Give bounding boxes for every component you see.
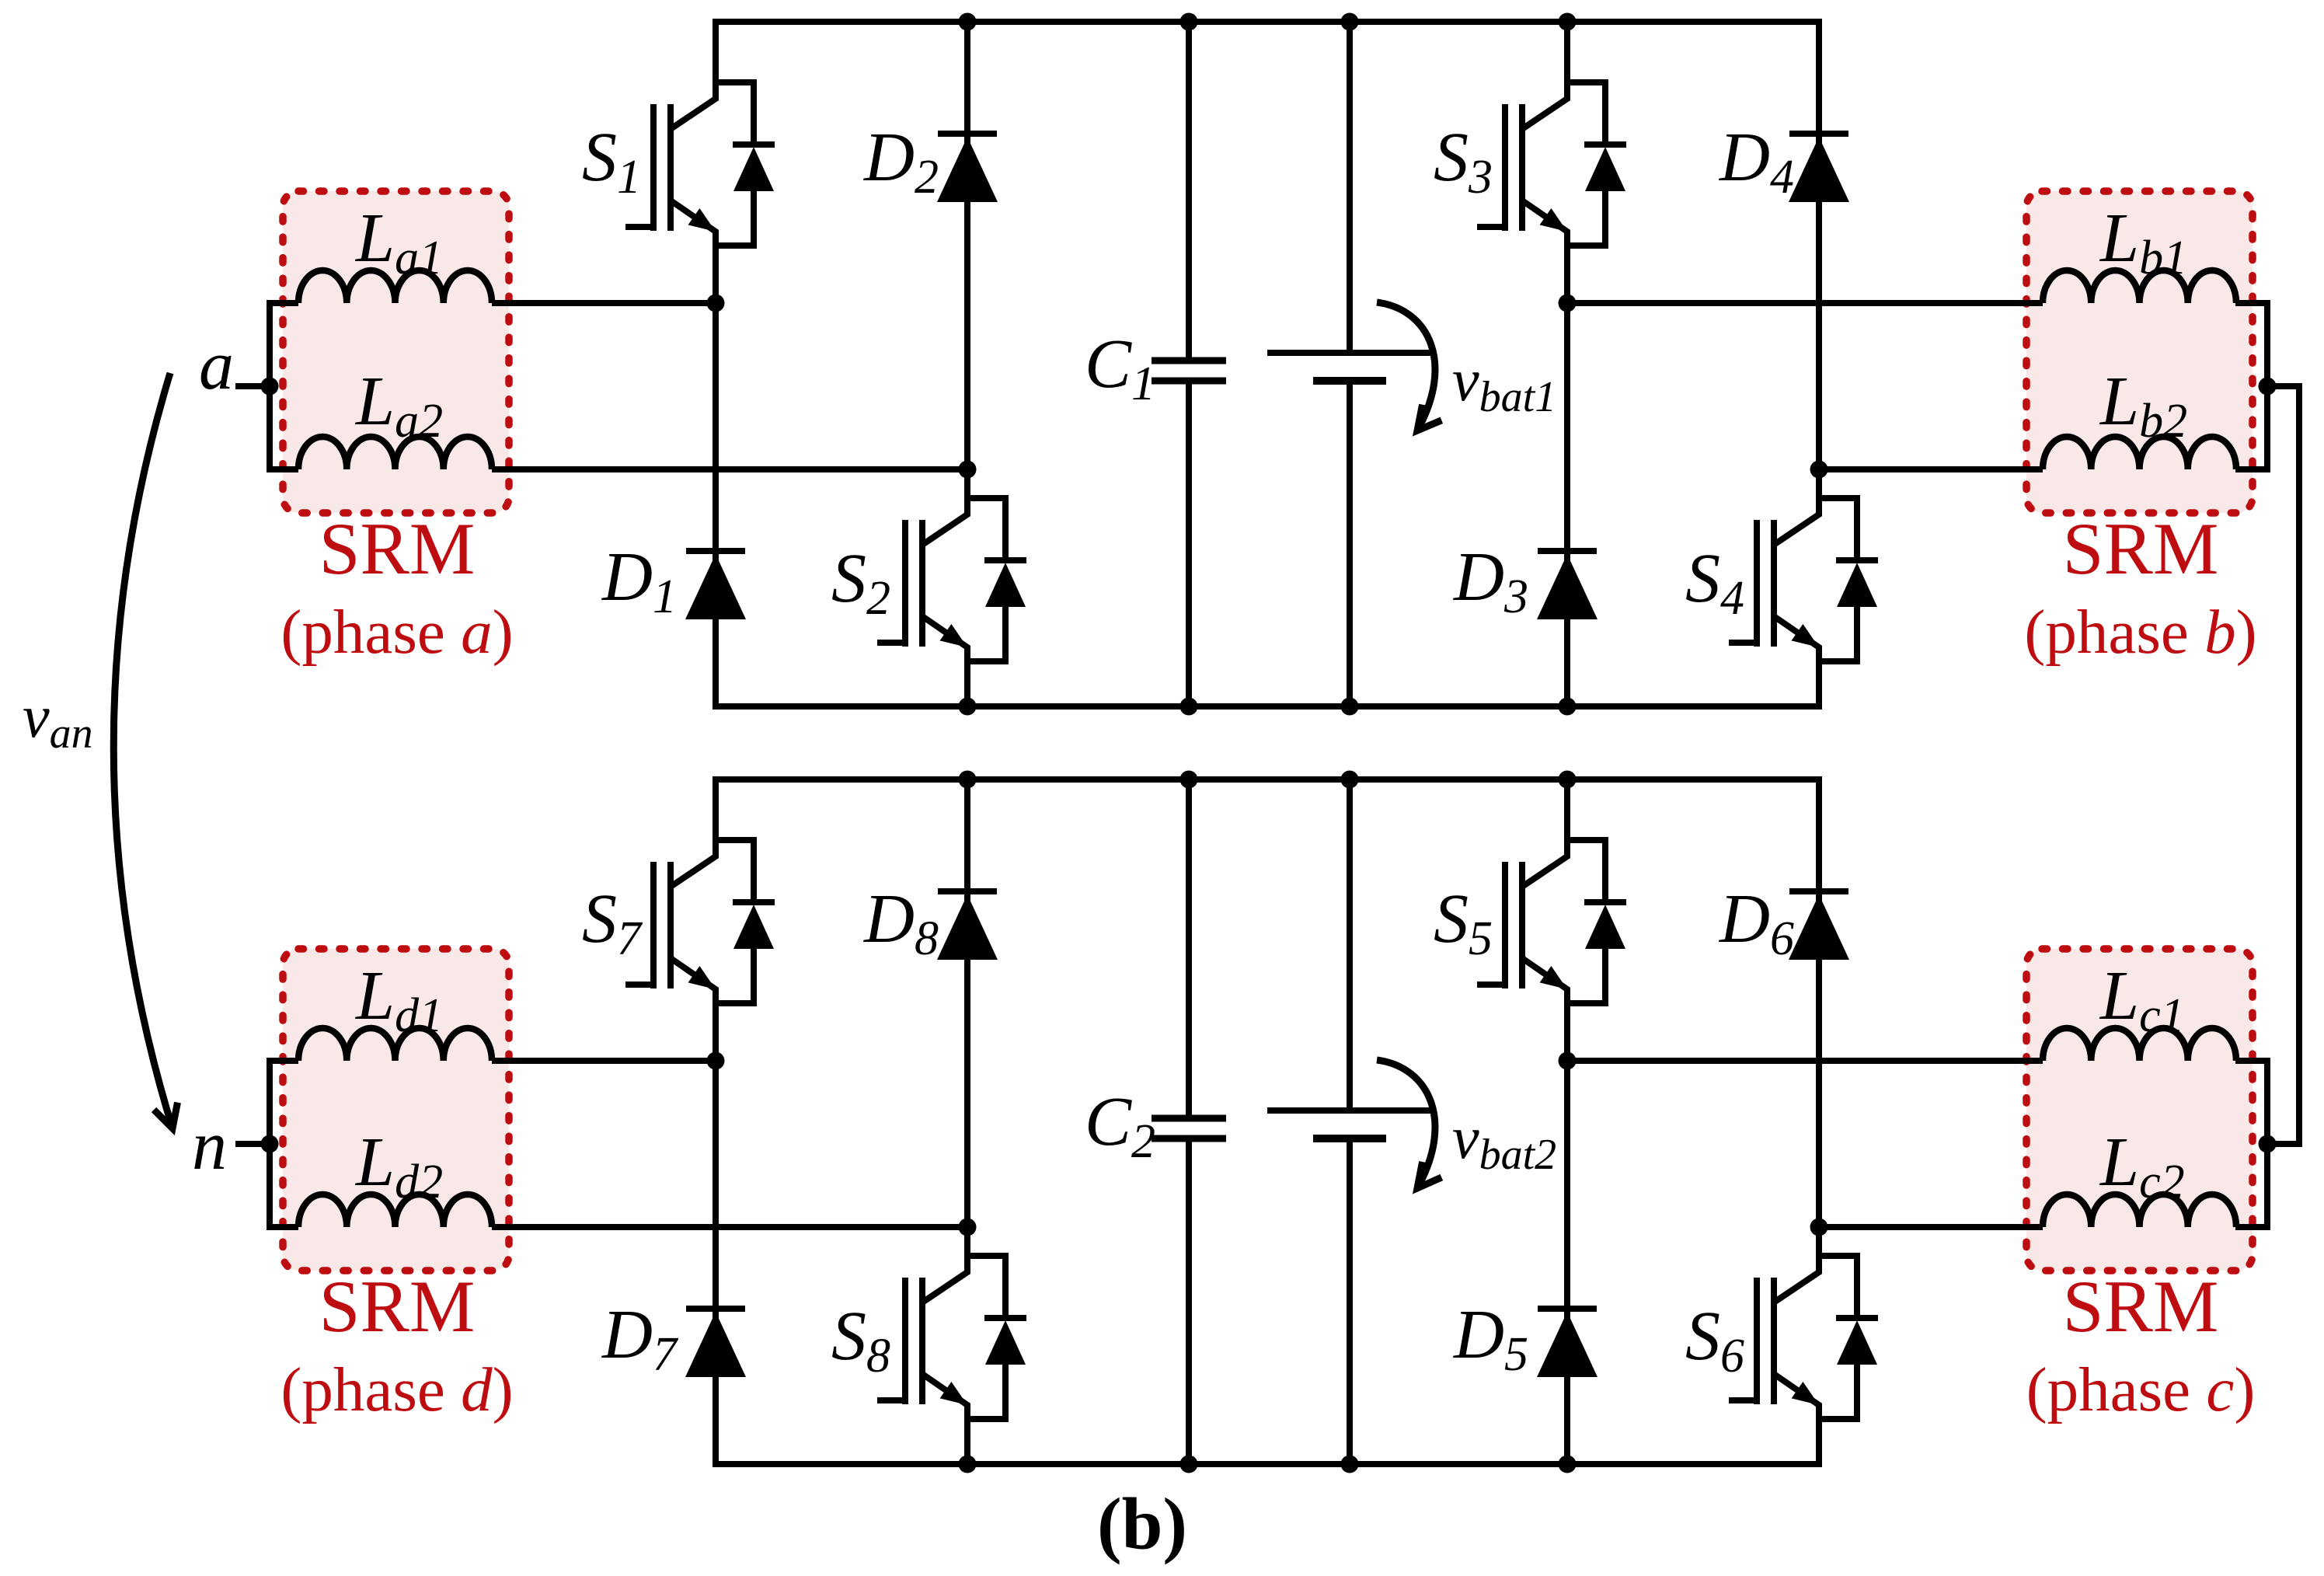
wire leg D5 (node to negative bus) — [1564, 1061, 1570, 1464]
svg-text:(b): (b) — [1097, 1483, 1187, 1565]
node negative bus / battery1 leg — [1341, 698, 1359, 716]
wire top-section positive DC bus — [713, 19, 1822, 25]
inductor Ld1 — [298, 1028, 492, 1061]
transistor S1 (IGBT, top switch) — [625, 22, 775, 303]
node D8/S8/Ld2 junction — [959, 1219, 977, 1236]
node b terminal — [2259, 378, 2277, 396]
SRM machine box phase d — [283, 949, 509, 1271]
diode D6 — [1789, 891, 1849, 960]
wire La1 to S1/D1 node — [492, 300, 716, 306]
node positive bus / battery1 leg — [1341, 13, 1359, 31]
wire Lb1 to S3/D3 node — [1567, 300, 2043, 306]
node c terminal — [2259, 1135, 2277, 1153]
node negative bus / D3 leg — [1559, 698, 1577, 716]
node D2/S2/La2 junction — [959, 461, 977, 479]
node negative bus2 / battery2 leg — [1341, 1456, 1359, 1473]
battery vbat1 — [1267, 350, 1432, 356]
transistor S4 (IGBT, bottom switch) — [1729, 469, 1878, 706]
diode D2 — [937, 134, 998, 202]
diode D8 — [937, 891, 998, 960]
wire Lc1 to S5/D5 node — [1567, 1058, 2043, 1064]
node D4/S4/Lb2 junction — [1810, 461, 1828, 479]
transistor S8 (IGBT, bottom switch) — [877, 1227, 1026, 1464]
node negative bus2 / D5 leg — [1559, 1456, 1577, 1473]
wire battery leg upper (bottom section) — [1347, 779, 1353, 1111]
svg-text:SRM: SRM — [2063, 1265, 2219, 1348]
SRM machine box phase c — [2026, 949, 2253, 1271]
node S7/D7/Ld1 junction — [707, 1052, 725, 1070]
capacitor C1 — [1152, 361, 1226, 381]
wire top-section negative DC bus — [713, 703, 1822, 710]
diode D3 — [1537, 551, 1598, 619]
wire node-b to node-c interconnect — [2267, 386, 2299, 1144]
inductor La2 — [298, 437, 492, 469]
wire bottom-section positive DC bus — [713, 776, 1822, 783]
wire leg D6 (positive bus to node) — [1816, 779, 1822, 1227]
wire phase-a left vertical — [270, 303, 298, 469]
wire bottom-section negative DC bus — [713, 1461, 1822, 1467]
transistor S6 (IGBT, bottom switch) — [1729, 1227, 1878, 1464]
node S1/D1/La1 junction — [707, 295, 725, 312]
arrow vbat2 voltage reference — [1377, 1060, 1441, 1188]
svg-text:(phase b): (phase b) — [2024, 597, 2256, 667]
transistor S3 (IGBT, top switch) — [1477, 22, 1626, 303]
svg-text:a: a — [199, 327, 234, 404]
wire leg D4 (positive bus to node) — [1816, 22, 1822, 469]
wire capacitor leg upper (bottom section) — [1186, 779, 1192, 1118]
wire capacitor leg lower (top section) — [1186, 381, 1192, 706]
node positive bus / D2 leg — [959, 13, 977, 31]
svg-text:(phase c): (phase c) — [2026, 1355, 2256, 1424]
inductor Lb1 — [2043, 270, 2236, 303]
wire Lb2 to D4/S4 node — [1819, 466, 2043, 472]
node negative bus2 / C2 leg — [1180, 1456, 1198, 1473]
node positive bus2 / battery2 leg — [1341, 771, 1359, 789]
svg-text:SRM: SRM — [2063, 507, 2219, 590]
wire leg D2 (positive bus to node) — [964, 22, 970, 469]
wire leg D8 (positive bus to node) — [964, 779, 970, 1227]
inductor Ld2 — [298, 1194, 492, 1227]
node positive bus2 / D8 leg — [959, 771, 977, 789]
node positive bus / S3 leg — [1559, 13, 1577, 31]
wire leg D7 (node to negative bus) — [713, 1061, 719, 1464]
svg-text:(phase d): (phase d) — [280, 1355, 513, 1424]
capacitor C2 — [1152, 1118, 1226, 1138]
transistor S7 (IGBT, top switch) — [625, 779, 775, 1061]
wire Lc2 to D6/S6 node — [1819, 1224, 2043, 1230]
svg-text:n: n — [192, 1107, 227, 1184]
inductor Lb2 — [2043, 437, 2236, 469]
wire phase-c right vertical — [2235, 1061, 2267, 1227]
node D6/S6/Lc2 junction — [1810, 1219, 1828, 1236]
diode D1 — [685, 551, 746, 619]
diode D5 — [1537, 1309, 1598, 1377]
wire La2 to D2/S2 node — [492, 466, 967, 472]
node a terminal — [261, 378, 279, 396]
node positive bus2 / C2 leg — [1180, 771, 1198, 789]
node S5/D5/Lc1 junction — [1559, 1052, 1577, 1070]
node negative bus / C1 leg — [1180, 698, 1198, 716]
SRM machine box phase b — [2026, 191, 2253, 513]
node negative bus / S2 leg — [959, 698, 977, 716]
arrow vbat1 voltage reference — [1377, 302, 1441, 431]
node S3/D3/Lb1 junction — [1559, 295, 1577, 312]
inductor Lc2 — [2043, 1194, 2236, 1227]
transistor S5 (IGBT, top switch) — [1477, 779, 1626, 1061]
wire battery leg upper (top section) — [1347, 22, 1353, 353]
SRM machine box phase a — [283, 191, 509, 513]
wire capacitor leg upper (top section) — [1186, 22, 1192, 361]
node n terminal — [261, 1135, 279, 1153]
wire battery leg lower (top section) — [1347, 381, 1353, 706]
wire leg D3 (node to negative bus) — [1564, 303, 1570, 706]
wire battery leg lower (bottom section) — [1347, 1138, 1353, 1464]
inductor Lc1 — [2043, 1028, 2236, 1061]
wire node-a stub — [235, 383, 270, 389]
battery vbat2 — [1267, 1107, 1432, 1114]
arrow van voltage reference from a to n — [113, 373, 177, 1128]
node positive bus / C1 leg — [1180, 13, 1198, 31]
svg-text:SRM: SRM — [319, 1265, 476, 1348]
node positive bus2 / S5 leg — [1559, 771, 1577, 789]
node negative bus2 / S8 leg — [959, 1456, 977, 1473]
diode D4 — [1789, 134, 1849, 202]
diode D7 — [685, 1309, 746, 1377]
wire node-n stub — [235, 1141, 270, 1147]
wire Ld1 to S7/D7 node — [492, 1058, 716, 1064]
wire phase-b right vertical — [2235, 303, 2267, 469]
transistor S2 (IGBT, bottom switch) — [877, 469, 1026, 706]
wire capacitor leg lower (bottom section) — [1186, 1138, 1192, 1464]
svg-text:(phase a): (phase a) — [280, 597, 513, 667]
svg-text:SRM: SRM — [319, 507, 476, 590]
wire phase-d left vertical — [270, 1061, 298, 1227]
wire leg D1 (node to negative bus) — [713, 303, 719, 706]
inductor La1 — [298, 270, 492, 303]
wire Ld2 to D8/S8 node — [492, 1224, 967, 1230]
